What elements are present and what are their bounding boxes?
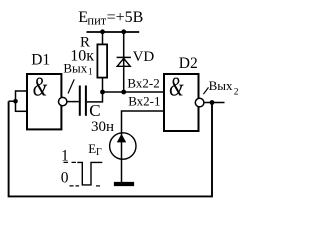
svg-text:Вых: Вых: [209, 78, 233, 93]
svg-text:C: C: [89, 101, 100, 120]
junction dot rail-resistor: [100, 29, 105, 34]
junction dot D1 inputs: [13, 99, 18, 104]
feedback wire D2 output to D1 input: [9, 101, 212, 196]
junction dot rail-diode: [121, 29, 126, 34]
gate D2 & symbol: [169, 72, 184, 102]
pulse level-0 dashed line left: [70, 185, 80, 187]
svg-text:0: 0: [61, 169, 69, 186]
gate D1 input pin 2 wire: [16, 110, 28, 112]
capacitor C left plate: [79, 86, 81, 116]
wire node to Вх2-2: [103, 91, 164, 93]
svg-text:VD: VD: [133, 49, 155, 65]
svg-text:1: 1: [88, 67, 93, 77]
generator Ег label: [88, 141, 102, 158]
ground bar: [114, 182, 134, 186]
current source G circle: [110, 133, 136, 159]
capacitor C right wire up to node: [87, 101, 103, 103]
gate D1 input tie wire: [15, 90, 17, 112]
junction dot resistor-capacitor node: [100, 90, 105, 95]
pulse level-1 dashed line: [64, 161, 77, 163]
net Епит label: [78, 9, 143, 27]
resistor R bottom lead wire: [102, 78, 104, 103]
capacitor C left wire from D1 output: [67, 101, 79, 103]
diode VD cathode bar: [117, 56, 131, 58]
svg-text:Вх2-1: Вх2-1: [128, 94, 160, 109]
svg-text:&: &: [169, 72, 184, 102]
resistor R body: [97, 44, 107, 77]
capacitor C right plate: [85, 86, 87, 116]
current source vertical wire: [121, 133, 123, 182]
label Вых2 pointer line: [203, 87, 208, 94]
svg-text:30н: 30н: [91, 119, 114, 135]
gate D1 output bubble: [59, 97, 67, 105]
svg-text:D1: D1: [31, 51, 50, 68]
svg-text:&: &: [33, 72, 48, 102]
+5V power rail wire: [87, 31, 140, 33]
svg-text:пит: пит: [87, 13, 106, 27]
svg-text:2: 2: [234, 87, 239, 97]
svg-text:Г: Г: [96, 147, 102, 158]
gate D2 box: [164, 74, 199, 131]
pulse level-0 dashed line right: [96, 185, 100, 187]
label Вых2: [209, 78, 239, 97]
current source arrow: [117, 134, 126, 143]
gate D1 input pin 1 wire: [16, 90, 28, 92]
svg-text:Вых: Вых: [63, 60, 87, 75]
gate D1 & symbol: [33, 72, 48, 102]
gate D2 output wire: [204, 102, 225, 104]
svg-text:D2: D2: [179, 55, 198, 72]
junction dot D2 output: [210, 100, 215, 105]
pulse waveform: [77, 162, 102, 185]
resistor R top lead wire: [102, 32, 104, 44]
svg-text:=+5В: =+5В: [107, 9, 144, 26]
gate D2 output bubble: [195, 98, 204, 107]
diode VD vertical wire: [123, 32, 125, 92]
svg-text:Е: Е: [88, 141, 96, 156]
diode VD triangle: [117, 58, 130, 66]
junction dot diode node: [121, 90, 126, 95]
label Вых1: [63, 60, 93, 77]
feedback stub to D1 inputs: [9, 100, 16, 102]
gate D1 box: [27, 74, 61, 129]
wire Вх2-1 from generator: [122, 111, 164, 134]
label Вых1 pointer line: [68, 79, 74, 93]
svg-text:Вх2-2: Вх2-2: [127, 75, 159, 90]
